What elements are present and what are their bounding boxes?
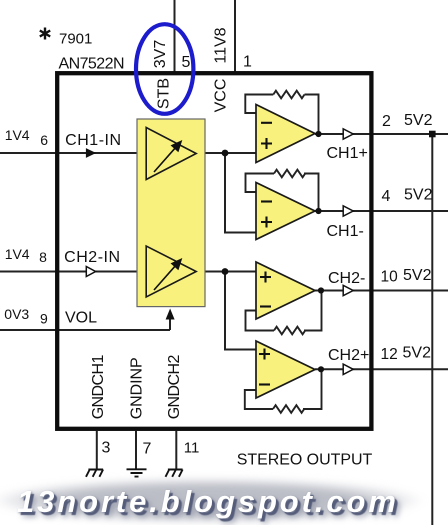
- svg-text:0V3: 0V3: [4, 306, 29, 322]
- svg-text:VOL: VOL: [65, 309, 97, 326]
- svg-text:2: 2: [382, 113, 391, 130]
- svg-text:1V4: 1V4: [5, 127, 30, 143]
- svg-text:5V2: 5V2: [404, 187, 433, 204]
- svg-text:7: 7: [143, 440, 152, 457]
- svg-text:11: 11: [184, 440, 200, 457]
- svg-text:GNDINP: GNDINP: [129, 357, 146, 419]
- svg-text:STEREO OUTPUT: STEREO OUTPUT: [237, 452, 373, 469]
- svg-text:GNDCH2: GNDCH2: [166, 355, 183, 420]
- svg-text:5: 5: [182, 54, 191, 71]
- svg-text:5V2: 5V2: [404, 112, 433, 129]
- svg-text:STB: STB: [155, 78, 172, 109]
- svg-text:CH2+: CH2+: [328, 347, 369, 364]
- svg-text:1: 1: [243, 54, 252, 71]
- svg-text:9: 9: [40, 311, 48, 327]
- svg-text:10: 10: [381, 269, 399, 286]
- svg-text:4: 4: [382, 188, 391, 205]
- svg-text:CH1-IN: CH1-IN: [65, 132, 121, 149]
- svg-text:CH1-: CH1-: [327, 223, 364, 240]
- svg-text:3V7: 3V7: [152, 40, 169, 69]
- svg-text:11V8: 11V8: [213, 27, 230, 63]
- svg-text:VCC: VCC: [213, 79, 230, 113]
- svg-text:5V2: 5V2: [403, 345, 432, 362]
- svg-text:5V2: 5V2: [403, 267, 432, 284]
- svg-text:GNDCH1: GNDCH1: [90, 355, 107, 420]
- svg-text:3: 3: [102, 440, 111, 457]
- svg-text:CH2-: CH2-: [328, 270, 365, 287]
- svg-text:CH1+: CH1+: [327, 145, 368, 162]
- svg-text:AN7522N: AN7522N: [59, 55, 125, 72]
- svg-text:1V4: 1V4: [5, 246, 30, 262]
- svg-text:6: 6: [40, 132, 48, 148]
- svg-text:12: 12: [381, 346, 398, 363]
- svg-text:8: 8: [39, 249, 47, 265]
- svg-text:7901: 7901: [59, 31, 92, 48]
- svg-text:CH2-IN: CH2-IN: [64, 249, 120, 266]
